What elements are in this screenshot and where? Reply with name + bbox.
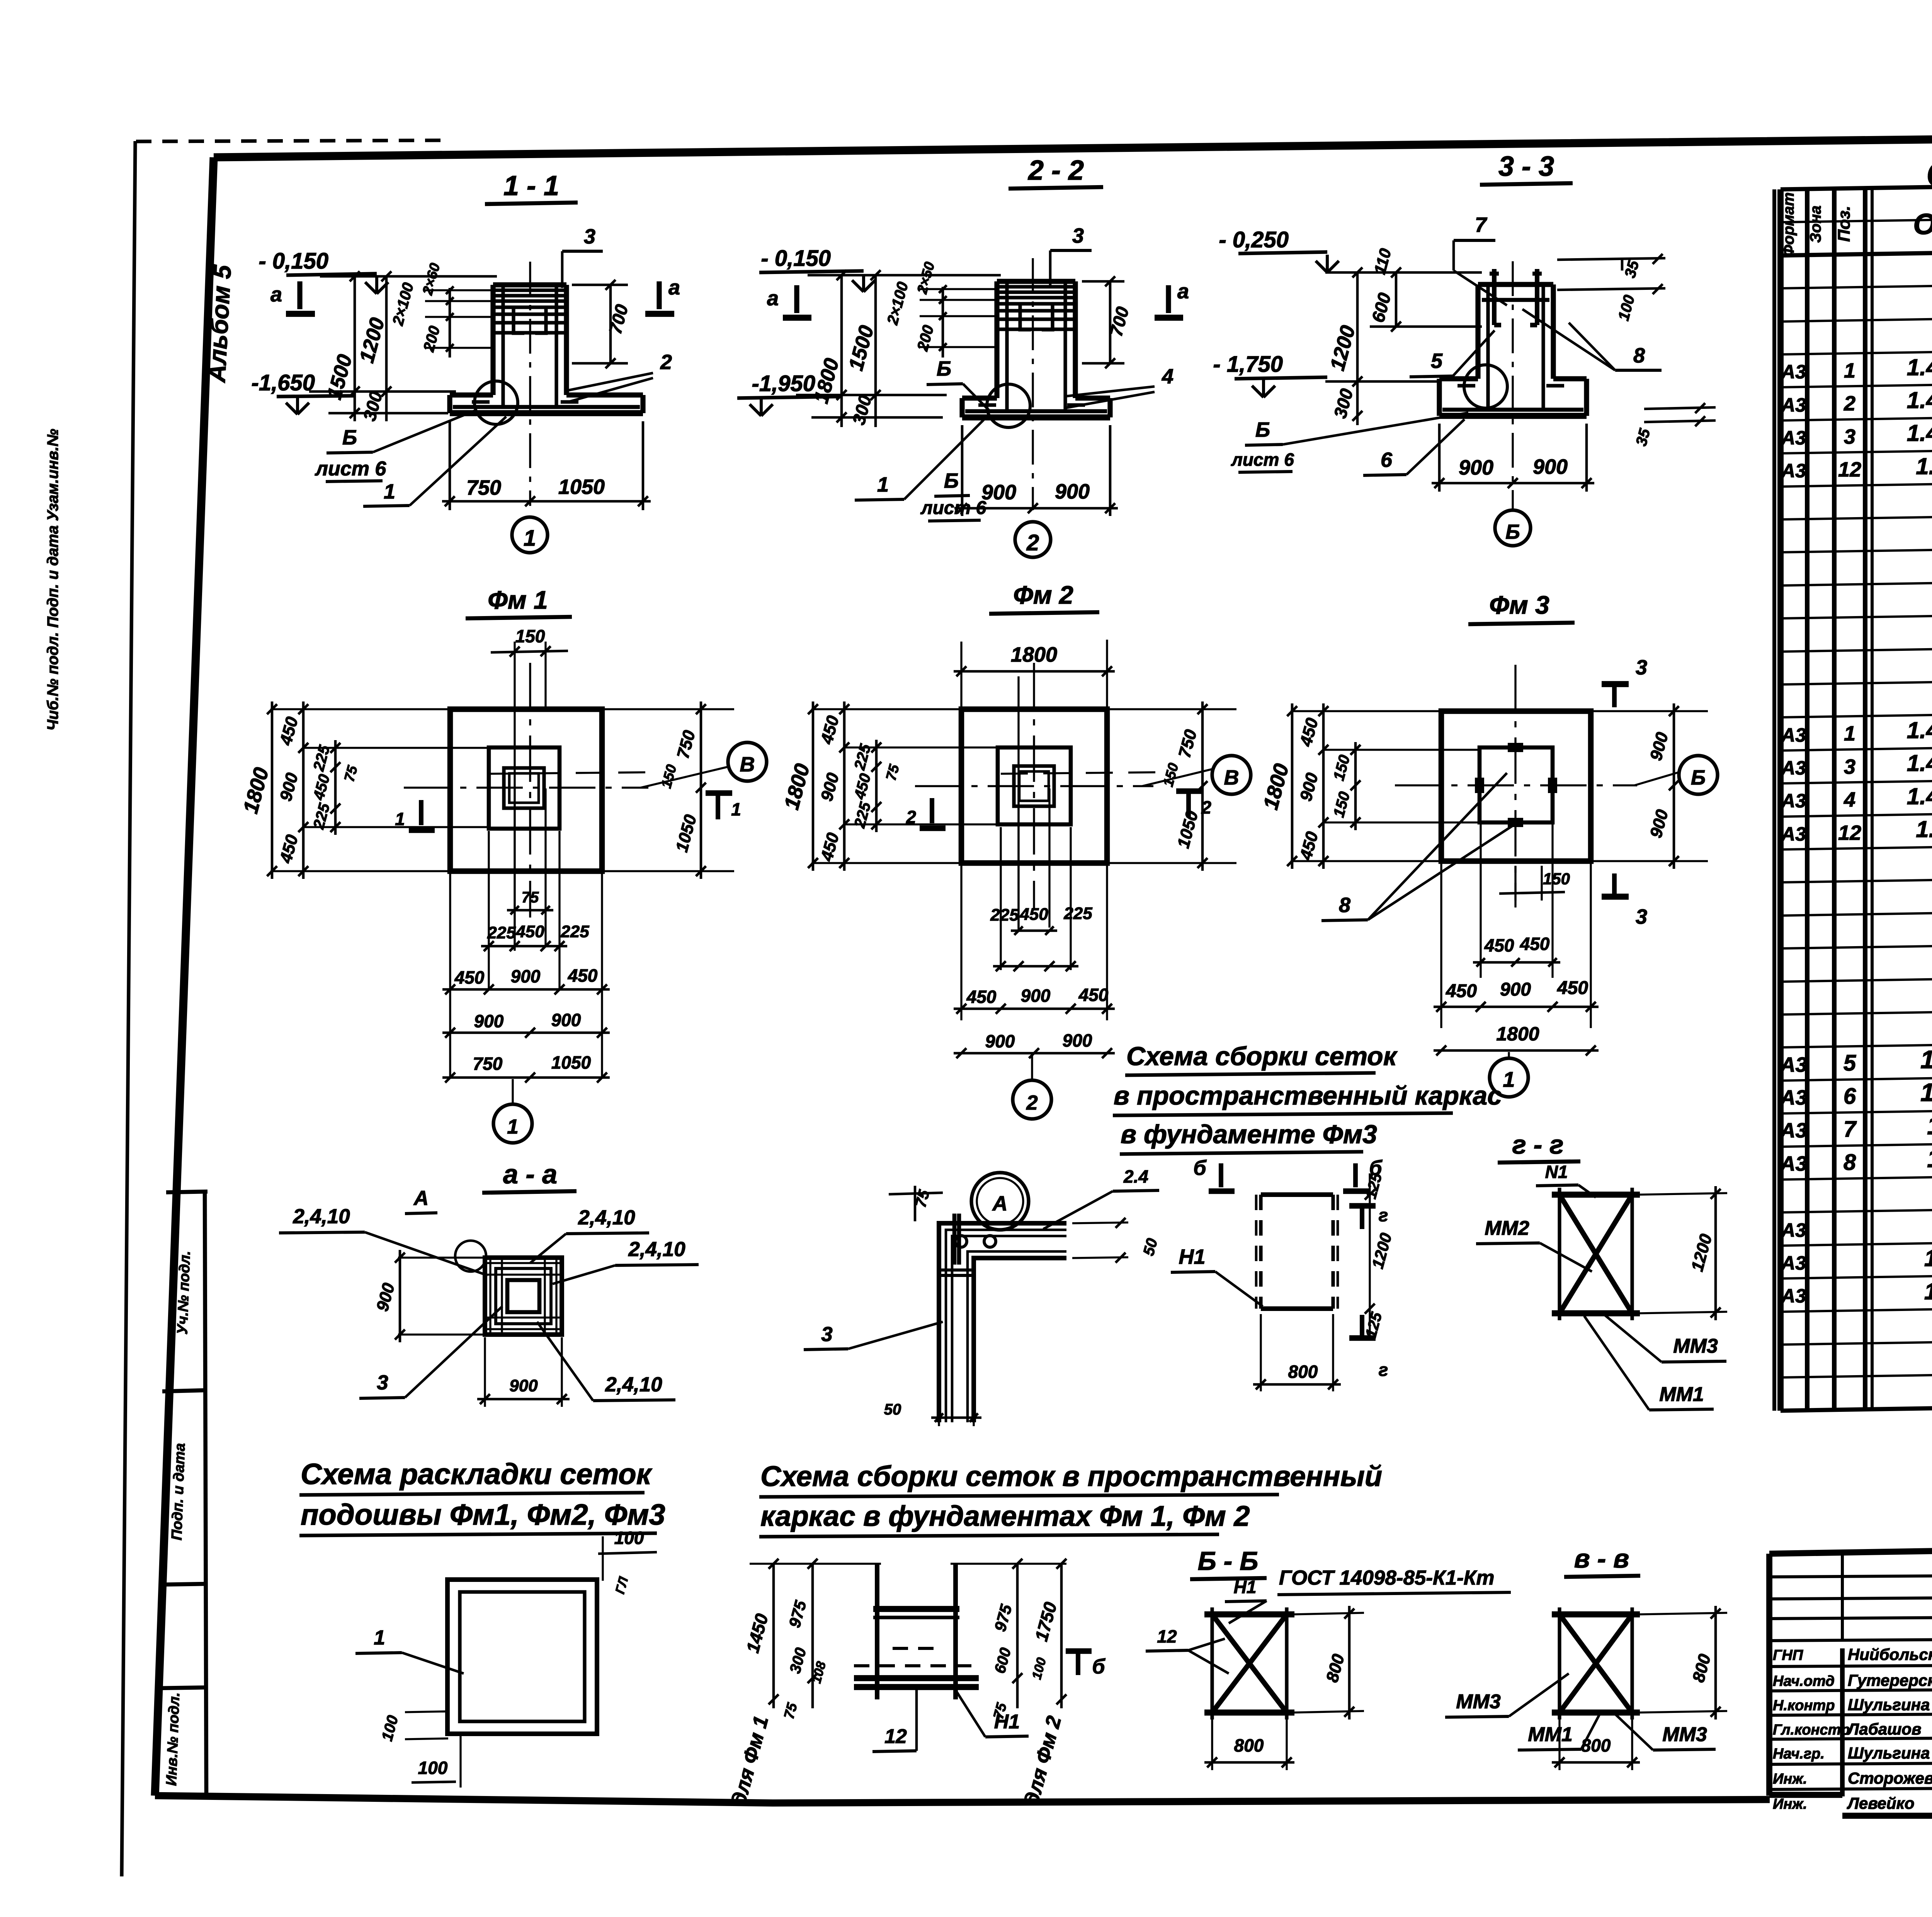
svg-text:1200: 1200 (1368, 1231, 1395, 1270)
svg-text:2: 2 (1844, 392, 1855, 415)
svg-text:800: 800 (1234, 1735, 1264, 1755)
svg-text:7: 7 (1475, 213, 1488, 237)
svg-text:1.412.1-Б Вып. 2-4: 1.412.1-Б Вып. 2-4 (1907, 420, 1932, 446)
ladder diagram left dims (772, 1564, 775, 1708)
svg-text:- 0,150: - 0,150 (259, 249, 328, 274)
svg-text:1: 1 (507, 1115, 518, 1138)
plan Fm1 right dims 750 1050 (603, 708, 734, 710)
svg-text:Нач.гр.: Нач.гр. (1773, 1746, 1825, 1762)
svg-text:А3: А3 (1781, 1252, 1806, 1274)
plan Fm1 top dim 150 (514, 642, 515, 951)
sheet edge line left (122, 141, 135, 1876)
svg-text:2.4: 2.4 (1123, 1166, 1148, 1187)
svg-text:ММ3: ММ3 (1456, 1691, 1501, 1713)
svg-text:1.412.1-Б Вып. 2-4: 1.412.1-Б Вып. 2-4 (1907, 750, 1932, 776)
svg-text:1.412.1-6.0 - 7СМ: 1.412.1-6.0 - 7СМ (1916, 453, 1932, 479)
svg-text:450: 450 (454, 967, 485, 987)
specification table grid (1781, 178, 1932, 189)
svg-text:3: 3 (1636, 905, 1647, 928)
svg-text:Гутерерский: Гутерерский (1848, 1671, 1932, 1689)
corner detail body (939, 1223, 1066, 1422)
svg-text:225: 225 (560, 922, 589, 941)
svg-text:1.412.1-Б Вып. 2-3: 1.412.1-Б Вып. 2-3 (1907, 783, 1932, 809)
plan Fm3 axis bubble B (1679, 756, 1718, 794)
plan Fm1 cut mark 1 bottom-left (419, 800, 423, 825)
plan Fm2 body (961, 709, 1107, 863)
plan Fm3 cut mark 3 bottom-right (1602, 894, 1629, 900)
svg-text:1500: 1500 (844, 323, 878, 373)
svg-text:2×60: 2×60 (419, 261, 443, 297)
svg-text:900: 900 (1500, 979, 1531, 1000)
section 1-1 foundation body (490, 285, 495, 395)
svg-text:2: 2 (1201, 797, 1211, 817)
svg-text:6: 6 (1381, 448, 1393, 472)
svg-text:Б: Б (1255, 418, 1270, 441)
svg-text:750: 750 (1175, 727, 1201, 760)
svg-text:Б: Б (342, 426, 357, 449)
svg-text:В: В (740, 753, 755, 776)
svg-text:900: 900 (511, 966, 541, 986)
svg-text:ММ2: ММ2 (1485, 1217, 1529, 1239)
svg-text:450: 450 (1078, 985, 1109, 1005)
svg-text:100: 100 (614, 1528, 644, 1548)
svg-text:в - в: в - в (1574, 1544, 1629, 1573)
svg-text:Обозначение: Обозначение (1913, 208, 1932, 241)
drawing frame (214, 133, 1932, 1856)
svg-text:А3: А3 (1781, 1219, 1806, 1241)
detail v-v dims 800 (1638, 1613, 1727, 1614)
svg-text:450: 450 (276, 833, 302, 865)
svg-text:1050: 1050 (672, 812, 701, 854)
svg-text:б: б (1193, 1156, 1207, 1180)
svg-text:2,4,10: 2,4,10 (578, 1206, 635, 1229)
svg-text:1800: 1800 (239, 765, 273, 816)
svg-text:А: А (992, 1192, 1008, 1215)
svg-text:Н1: Н1 (1234, 1577, 1257, 1597)
svg-text:900: 900 (981, 481, 1016, 504)
svg-text:Фм 1: Фм 1 (488, 586, 548, 614)
plan Fm2 bottom dim chains (960, 866, 962, 1020)
svg-text:Б: Б (1505, 521, 1520, 543)
svg-text:3: 3 (1636, 656, 1647, 679)
svg-text:Н.контр: Н.контр (1773, 1697, 1835, 1714)
svg-text:900: 900 (373, 1281, 398, 1313)
svg-text:1.412.1-6.0 - 7СМ: 1.412.1-6.0 - 7СМ (1916, 816, 1932, 842)
svg-text:1800: 1800 (1259, 761, 1293, 812)
svg-text:50: 50 (1140, 1236, 1161, 1257)
svg-text:300: 300 (787, 1646, 810, 1675)
svg-text:Б: Б (1691, 766, 1706, 789)
svg-text:А3: А3 (1781, 757, 1806, 779)
svg-text:А3: А3 (1781, 394, 1806, 416)
svg-text:А3: А3 (1779, 1086, 1807, 1109)
svg-text:450: 450 (1296, 716, 1322, 749)
svg-text:а: а (1177, 280, 1189, 303)
svg-text:А3: А3 (1781, 1285, 1806, 1307)
svg-text:450: 450 (851, 772, 874, 802)
detail a-a mesh square (485, 1258, 562, 1335)
svg-text:800: 800 (1288, 1362, 1318, 1382)
svg-text:450: 450 (1484, 935, 1514, 955)
svg-text:12: 12 (1838, 821, 1861, 844)
svg-text:А3: А3 (1779, 1053, 1807, 1076)
svg-text:1.410-3 Вып. 1: 1.410-3 Вып. 1 (1920, 1045, 1932, 1074)
svg-text:ММ1: ММ1 (1528, 1723, 1573, 1746)
svg-text:600: 600 (992, 1646, 1015, 1675)
svg-text:35: 35 (1633, 427, 1653, 448)
svg-text:1450: 1450 (742, 1611, 772, 1655)
svg-text:Нийбольский: Нийбольский (1848, 1645, 1932, 1663)
title block personnel rows (1769, 1665, 1932, 1667)
detail B-B dims 800 (1293, 1613, 1364, 1614)
svg-text:1.412.1- 4.080-2: 1.412.1- 4.080-2 (1924, 1279, 1932, 1304)
svg-text:а - а: а - а (503, 1159, 557, 1189)
svg-text:450: 450 (276, 715, 302, 747)
svg-text:100: 100 (1615, 293, 1638, 323)
svg-text:5: 5 (1844, 1050, 1856, 1076)
section 2-2 foundation body (994, 281, 999, 398)
svg-text:1200: 1200 (1688, 1232, 1716, 1273)
svg-text:2,4,10: 2,4,10 (628, 1238, 685, 1261)
svg-text:2: 2 (1026, 530, 1039, 555)
svg-text:Инж.: Инж. (1773, 1771, 1807, 1787)
svg-text:8: 8 (1633, 344, 1645, 367)
svg-text:900: 900 (1646, 730, 1672, 763)
svg-text:75: 75 (522, 889, 539, 906)
svg-text:900: 900 (1055, 480, 1090, 503)
svg-text:а: а (668, 276, 680, 299)
svg-text:900: 900 (276, 771, 302, 803)
svg-text:35: 35 (1621, 259, 1642, 280)
svg-text:лист 6: лист 6 (315, 458, 387, 480)
svg-text:5: 5 (1431, 349, 1443, 373)
svg-text:Нач.отд: Нач.отд (1773, 1673, 1835, 1689)
svg-text:800: 800 (1581, 1735, 1611, 1755)
svg-text:Сторожева: Сторожева (1848, 1769, 1932, 1787)
svg-text:150: 150 (1160, 761, 1182, 788)
section 1-1 right dim 700 (609, 285, 612, 363)
svg-text:Фм 3: Фм 3 (1489, 591, 1549, 619)
plan Fm3 bottom dim chains (1440, 863, 1442, 1028)
svg-text:75: 75 (883, 762, 903, 782)
svg-text:А3: А3 (1779, 1119, 1807, 1142)
svg-text:8: 8 (1844, 1150, 1856, 1175)
svg-text:Шульгина: Шульгина (1848, 1744, 1930, 1762)
svg-text:100: 100 (1029, 1656, 1049, 1681)
svg-text:900: 900 (817, 771, 843, 803)
svg-text:900: 900 (1533, 455, 1568, 478)
svg-text:Поз.: Поз. (1835, 206, 1854, 242)
svg-text:100: 100 (379, 1714, 402, 1743)
svg-text:900: 900 (1646, 807, 1672, 840)
svg-text:450: 450 (1019, 905, 1048, 924)
svg-text:150: 150 (1330, 790, 1354, 819)
svg-text:900: 900 (551, 1010, 581, 1030)
svg-text:Б - Б: Б - Б (1198, 1546, 1259, 1576)
svg-text:А3: А3 (1779, 1152, 1807, 1175)
svg-text:1.412.1-Б Вып. 2-3: 1.412.1-Б Вып. 2-3 (1907, 387, 1932, 413)
section 2-2 mesh spacing dims (942, 287, 944, 358)
svg-text:А3: А3 (1781, 724, 1806, 746)
svg-text:450: 450 (1446, 981, 1477, 1001)
svg-text:125: 125 (1362, 1171, 1386, 1201)
svg-text:1800: 1800 (1496, 1023, 1539, 1045)
svg-text:Альбом 5: Альбом 5 (202, 264, 236, 384)
svg-text:150: 150 (1543, 870, 1570, 888)
svg-text:450: 450 (817, 713, 843, 746)
svg-text:для Фм 2: для Фм 2 (1020, 1714, 1066, 1808)
svg-text:2: 2 (906, 807, 916, 827)
svg-text:800: 800 (1689, 1652, 1714, 1684)
svg-text:А3: А3 (1781, 823, 1806, 845)
svg-text:лист 6: лист 6 (1231, 449, 1294, 470)
plan Fm1 axis bubble 1 (493, 1104, 532, 1143)
svg-text:300: 300 (848, 393, 875, 427)
svg-text:1: 1 (1503, 1067, 1515, 1091)
svg-text:8: 8 (1339, 894, 1350, 917)
plan Fm1 bottom dim chains (449, 873, 451, 1078)
svg-text:1: 1 (731, 799, 741, 819)
raskladki square mesh C1 (447, 1580, 597, 1734)
svg-text:Подп. и дата: Подп. и дата (169, 1443, 189, 1541)
svg-text:2×100: 2×100 (389, 281, 417, 328)
svg-text:Зона: Зона (1807, 206, 1824, 243)
svg-text:750: 750 (473, 1054, 503, 1074)
svg-text:ГНП: ГНП (1773, 1647, 1803, 1663)
plan Fm3 dim 150 below (1514, 866, 1516, 901)
svg-text:75: 75 (341, 763, 361, 783)
svg-text:6: 6 (1844, 1084, 1856, 1109)
svg-text:1.412.1- 4.080-1: 1.412.1- 4.080-1 (1924, 1245, 1932, 1271)
svg-text:1.412.1- 4.060: 1.412.1- 4.060 (1927, 1144, 1932, 1173)
detail v-v body (1552, 1611, 1640, 1617)
section 1-1 bottom dims 750 1050 (449, 421, 451, 510)
svg-text:1.412.1- 4.050: 1.412.1- 4.050 (1927, 1111, 1932, 1140)
svg-text:Н1: Н1 (994, 1711, 1020, 1733)
svg-text:12: 12 (1157, 1626, 1177, 1646)
svg-text:225: 225 (990, 906, 1019, 924)
plan Fm3 left dims (1291, 710, 1443, 712)
section 3-3 bottom dims 900 900 (1438, 424, 1441, 492)
svg-text:1 - 1: 1 - 1 (503, 170, 559, 201)
svg-text:3: 3 (584, 225, 595, 248)
svg-text:900: 900 (985, 1031, 1015, 1051)
svg-text:75: 75 (781, 1701, 801, 1721)
svg-text:900: 900 (1459, 456, 1493, 479)
svg-text:3 - 3: 3 - 3 (1498, 151, 1554, 182)
plan Fm3 body (1441, 711, 1591, 861)
title block outline (1769, 1541, 1932, 1554)
svg-text:-1,650: -1,650 (252, 370, 315, 395)
title block upper-left grid (1769, 1575, 1932, 1577)
svg-text:2 - 2: 2 - 2 (1027, 155, 1084, 186)
svg-text:Уч.№ подл.: Уч.№ подл. (174, 1251, 194, 1335)
plan Fm2 cut mark 2 bottom-left (930, 798, 934, 823)
svg-text:975: 975 (991, 1602, 1015, 1633)
svg-text:Н1: Н1 (1179, 1245, 1205, 1268)
svg-text:1.412.1-Б Вып. 2-1: 1.412.1-Б Вып. 2-1 (1907, 354, 1932, 380)
plan Fm3 axis bubble 1 (1490, 1058, 1528, 1097)
plan Fm2 center light lines (1017, 676, 1019, 931)
svg-text:б: б (1092, 1655, 1105, 1678)
plan Fm2 right dims (1109, 708, 1236, 710)
section 3-3 right dims 35 100 (1621, 260, 1624, 271)
section 3-3 left dimension lines (1356, 272, 1359, 425)
svg-text:3: 3 (1844, 425, 1855, 448)
plan Fm1 body (450, 709, 602, 871)
svg-text:Левейко: Левейко (1847, 1794, 1915, 1812)
svg-text:1: 1 (374, 1626, 385, 1649)
svg-text:975: 975 (785, 1599, 810, 1629)
svg-text:1050: 1050 (551, 1052, 591, 1073)
ladder diagram body (875, 1564, 879, 1699)
svg-text:ММ1: ММ1 (1659, 1383, 1704, 1406)
svg-text:450: 450 (515, 922, 544, 941)
svg-text:750: 750 (673, 728, 699, 761)
svg-text:ММ3: ММ3 (1662, 1723, 1707, 1746)
svg-text:Чиб.№ подл. Подп. и дата Уза: Чиб.№ подл. Подп. и дата Узам.инв.№ (44, 429, 61, 730)
svg-text:2: 2 (1026, 1091, 1037, 1114)
svg-text:В: В (1224, 766, 1239, 789)
svg-text:1050: 1050 (558, 475, 605, 499)
svg-text:1200: 1200 (355, 315, 389, 365)
svg-text:ГЛ: ГЛ (612, 1575, 631, 1595)
svg-text:12: 12 (1838, 458, 1861, 481)
section 2-2 bottom dims 900 900 (961, 425, 964, 516)
svg-text:1: 1 (1844, 359, 1855, 382)
svg-text:225: 225 (1063, 904, 1092, 923)
plan Fm3 weld plates (1509, 744, 1522, 751)
svg-text:г: г (1379, 1205, 1388, 1225)
svg-text:А3: А3 (1781, 361, 1806, 383)
svg-text:100: 100 (418, 1758, 448, 1778)
section 3-3 bottom right dim 35 (1644, 407, 1716, 409)
svg-text:200: 200 (914, 323, 937, 353)
section 2-2 axis bubble 2 (1015, 522, 1051, 557)
svg-text:3: 3 (377, 1371, 388, 1394)
svg-text:900: 900 (1296, 771, 1322, 803)
svg-text:150: 150 (1330, 753, 1354, 783)
svg-text:ММ3: ММ3 (1673, 1335, 1718, 1357)
plan Fm1 left dims (270, 708, 452, 710)
svg-text:900: 900 (474, 1011, 504, 1031)
svg-text:450: 450 (1296, 829, 1322, 862)
svg-text:2×100: 2×100 (884, 280, 912, 327)
section 2-2 left dimension lines (840, 275, 843, 427)
svg-text:Инв.№ подл.: Инв.№ подл. (163, 1692, 183, 1786)
svg-text:200: 200 (420, 324, 443, 354)
svg-text:700: 700 (605, 302, 632, 336)
svg-text:А3: А3 (1781, 427, 1806, 449)
svg-text:3: 3 (821, 1323, 832, 1346)
assembly diagram Fm3 g marks (1349, 1203, 1376, 1209)
svg-text:450: 450 (817, 831, 843, 863)
svg-text:в пространственный каркас: в пространственный каркас (1114, 1081, 1502, 1110)
svg-text:50: 50 (884, 1401, 901, 1418)
svg-text:450: 450 (1557, 978, 1588, 998)
svg-text:12: 12 (884, 1725, 907, 1748)
svg-text:300: 300 (1330, 386, 1357, 421)
svg-text:ГОСТ 14098-85-К1-Кт: ГОСТ 14098-85-К1-Кт (1279, 1566, 1494, 1589)
svg-text:а: а (270, 283, 282, 306)
ladder diagram right dims (1016, 1564, 1019, 1708)
svg-text:1800: 1800 (780, 761, 814, 812)
svg-text:Гл.констр: Гл.констр (1773, 1722, 1850, 1738)
plan Fm2 left dims (811, 708, 963, 710)
svg-text:1200: 1200 (1326, 323, 1360, 373)
plan Fm2 top dim 1800 (960, 642, 962, 711)
svg-text:а: а (767, 287, 779, 310)
svg-text:А3: А3 (1781, 460, 1806, 482)
assembly diagram Fm3 dashed box (1261, 1192, 1333, 1197)
svg-text:Формат: Формат (1780, 192, 1797, 257)
svg-text:1: 1 (384, 480, 395, 503)
plan Fm2 cut mark 2 right (1186, 792, 1191, 817)
detail g-g dim 1200 (1638, 1193, 1727, 1195)
svg-text:3: 3 (1072, 224, 1084, 247)
svg-text:Схема сборки сеток в пространс: Схема сборки сеток в пространственный (760, 1460, 1382, 1492)
svg-text:для Фм 1: для Фм 1 (727, 1714, 773, 1808)
section 2-2 right dim 700 (1109, 281, 1112, 363)
svg-text:600: 600 (1367, 291, 1395, 325)
svg-text:450: 450 (310, 773, 333, 802)
svg-text:1: 1 (395, 809, 405, 829)
svg-text:Б: Б (937, 357, 951, 380)
svg-text:А3: А3 (1781, 790, 1806, 812)
svg-text:-1,950: -1,950 (752, 371, 815, 396)
plan Fm2 axis bubble B (1212, 756, 1251, 794)
svg-text:225: 225 (851, 800, 874, 830)
sheet edge dashed top (136, 140, 446, 141)
svg-text:г - г: г - г (1512, 1130, 1563, 1159)
svg-text:Лабашов: Лабашов (1847, 1720, 1921, 1738)
svg-text:2: 2 (660, 351, 672, 374)
svg-text:N1: N1 (1545, 1162, 1568, 1182)
svg-text:Схема сборки сеток: Схема сборки сеток (1126, 1042, 1398, 1071)
svg-text:- 0,250: - 0,250 (1219, 227, 1289, 252)
svg-text:в фундаменте Фм3: в фундаменте Фм3 (1121, 1120, 1377, 1149)
svg-text:7: 7 (1844, 1117, 1857, 1142)
svg-text:150: 150 (515, 626, 545, 646)
svg-text:125: 125 (1362, 1310, 1386, 1340)
svg-text:1: 1 (877, 473, 889, 496)
svg-text:150: 150 (658, 763, 680, 790)
section 3-3 foundation body (1475, 284, 1480, 379)
svg-text:Шульгина: Шульгина (1848, 1696, 1930, 1714)
svg-text:300: 300 (359, 389, 386, 423)
detail a-a dims 900 (398, 1256, 487, 1258)
svg-text:450: 450 (966, 987, 997, 1007)
svg-text:г: г (1379, 1360, 1388, 1380)
plan Fm1 cut mark 1 right (716, 794, 720, 819)
svg-text:Схема раскладки сеток: Схема раскладки сеток (301, 1458, 653, 1491)
svg-text:900: 900 (1021, 986, 1051, 1006)
plan Fm3 cut mark 3 top-right (1602, 681, 1629, 687)
svg-text:А: А (413, 1187, 429, 1210)
detail B-B body (1204, 1611, 1294, 1617)
svg-text:1750: 1750 (1031, 1600, 1061, 1643)
section 1-1 axis bubble 1 (512, 517, 548, 553)
svg-text:450: 450 (568, 965, 598, 986)
svg-text:4: 4 (1162, 365, 1173, 388)
detail g-g body (1552, 1192, 1640, 1198)
plan Fm3 right dims 900 900 (1593, 710, 1708, 712)
svg-text:1: 1 (1844, 722, 1855, 745)
svg-text:225: 225 (487, 923, 516, 942)
svg-text:4: 4 (1844, 788, 1855, 811)
svg-text:2,4,10: 2,4,10 (605, 1373, 662, 1396)
svg-text:- 0,150: - 0,150 (761, 246, 831, 271)
